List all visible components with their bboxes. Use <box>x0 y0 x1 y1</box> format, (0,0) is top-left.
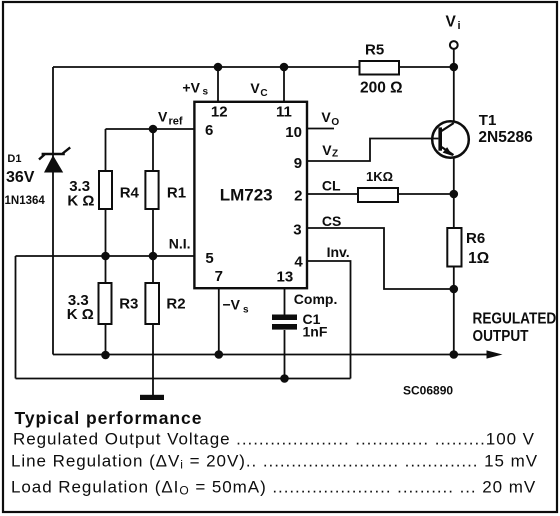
svg-text:1nF: 1nF <box>303 323 328 339</box>
svg-text:200 Ω: 200 Ω <box>360 80 403 97</box>
svg-text:12: 12 <box>211 104 228 121</box>
svg-text:REGULATED: REGULATED <box>473 311 557 328</box>
svg-text:SC06890: SC06890 <box>403 383 453 397</box>
svg-text:7: 7 <box>215 268 223 285</box>
svg-text:1Ω: 1Ω <box>468 250 489 267</box>
svg-text:V: V <box>321 109 331 125</box>
svg-text:R6: R6 <box>466 230 485 247</box>
svg-text:C: C <box>260 88 267 99</box>
svg-text:Comp.: Comp. <box>294 291 338 307</box>
svg-text:R3: R3 <box>119 296 138 313</box>
svg-text:OUTPUT: OUTPUT <box>473 328 529 345</box>
svg-text:Z: Z <box>332 148 338 159</box>
svg-text:5: 5 <box>205 250 213 267</box>
svg-text:Load Regulation (ΔIO = 50mA) .: Load Regulation (ΔIO = 50mA) ...........… <box>11 478 536 498</box>
svg-text:1KΩ: 1KΩ <box>366 169 393 184</box>
svg-text:ref: ref <box>169 116 183 128</box>
svg-text:Inv.: Inv. <box>327 244 350 260</box>
svg-text:K Ω: K Ω <box>67 306 94 323</box>
svg-text:D1: D1 <box>7 153 21 165</box>
svg-text:3: 3 <box>293 222 301 239</box>
svg-text:4: 4 <box>294 254 303 271</box>
svg-text:10: 10 <box>285 124 302 141</box>
svg-text:R5: R5 <box>365 42 384 59</box>
svg-text:1N1364: 1N1364 <box>5 195 46 207</box>
svg-text:R2: R2 <box>166 296 185 313</box>
svg-text:2: 2 <box>294 187 302 204</box>
svg-text:11: 11 <box>276 104 292 121</box>
svg-text:V: V <box>158 109 168 125</box>
svg-text:Line Regulation (ΔVi = 20V)..: Line Regulation (ΔVi = 20V).. ..........… <box>11 452 538 472</box>
svg-text:2N5286: 2N5286 <box>478 129 533 146</box>
svg-text:9: 9 <box>294 155 302 172</box>
svg-text:R4: R4 <box>120 185 140 202</box>
svg-text:R1: R1 <box>167 185 186 202</box>
svg-text:−V: −V <box>223 297 241 313</box>
svg-text:Typical performance: Typical performance <box>15 408 203 428</box>
svg-text:+V: +V <box>182 79 200 95</box>
svg-text:6: 6 <box>205 122 213 139</box>
svg-text:s: s <box>203 87 209 98</box>
svg-text:T1: T1 <box>479 112 497 129</box>
svg-text:N.I.: N.I. <box>169 235 191 251</box>
svg-text:K Ω: K Ω <box>67 192 94 209</box>
svg-text:O: O <box>331 117 339 128</box>
svg-text:36V: 36V <box>6 169 35 186</box>
svg-text:13: 13 <box>277 268 294 285</box>
svg-text:CL: CL <box>322 178 341 194</box>
svg-text:V: V <box>446 13 457 30</box>
svg-text:i: i <box>458 20 461 32</box>
svg-text:V: V <box>250 80 260 96</box>
svg-text:s: s <box>243 305 249 316</box>
svg-text:CS: CS <box>322 213 341 229</box>
svg-text:V: V <box>322 142 332 158</box>
svg-text:LM723: LM723 <box>220 186 273 205</box>
svg-text:Regulated Output Voltage .....: Regulated Output Voltage ...............… <box>13 430 535 449</box>
